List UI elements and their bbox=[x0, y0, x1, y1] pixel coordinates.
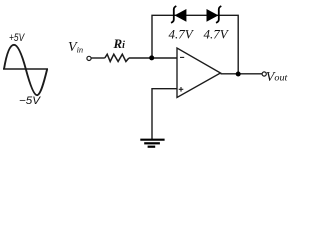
svg-text:4.7V: 4.7V bbox=[204, 27, 230, 42]
svg-text:−5V: −5V bbox=[19, 95, 42, 107]
svg-text:4.7V: 4.7V bbox=[169, 27, 195, 42]
svg-text:+5V: +5V bbox=[9, 32, 25, 44]
